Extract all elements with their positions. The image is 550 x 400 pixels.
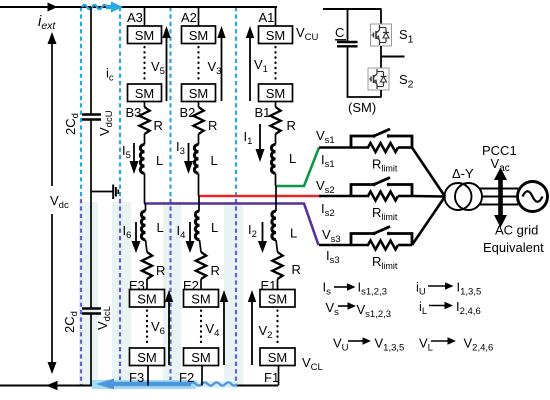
- transformer winding circle 2: [455, 183, 482, 210]
- arm voltage arrow V lower leg 3: [168, 301, 170, 365]
- arm voltage arrow V upper leg 3: [166, 37, 168, 101]
- dashed boundary line 4 upper (cyan): [235, 7, 237, 199]
- wire: bottom DC bus: [0, 385, 278, 387]
- svg-text:Equivalent: Equivalent: [483, 240, 544, 255]
- dotted continuation of lower SM string leg 2: [200, 311, 202, 346]
- arm current arrow I lower leg 2: [189, 222, 191, 242]
- highlight band under dashed line 2 (lower half): [112, 202, 131, 386]
- inductor L upper arm leg 2: [194, 145, 198, 174]
- resistor R_limit s3: [368, 241, 398, 250]
- submodule SM box (bottom) leg 1: [260, 348, 295, 366]
- arm voltage arrow V upper leg 1: [249, 37, 251, 101]
- V_dc arrow upper segment: [51, 42, 53, 186]
- arrowhead i_ext on top bus: [48, 3, 58, 12]
- svg-text:SM: SM: [135, 28, 155, 43]
- AC grid source circle: [518, 182, 548, 212]
- DC-link vertical wire (bottom): [90, 314, 92, 386]
- V_dc measurement arrow (down head): [48, 362, 57, 374]
- submodule SM box (bottom of upper string) leg 2: [182, 84, 216, 102]
- DC-link vertical wire (top): [90, 7, 92, 114]
- transformer winding circle 1: [445, 183, 472, 210]
- wire phase s2 (red): [199, 195, 322, 198]
- resistor R lower arm leg 1: [272, 252, 282, 279]
- dashed boundary line 1 upper (cyan): [80, 7, 82, 199]
- svg-text:SM: SM: [191, 292, 211, 307]
- svg-text:A3: A3: [127, 10, 143, 25]
- cyan circulating-current arrow (bottom, pointing left): light halo: [92, 380, 196, 389]
- highlight band under dashed line 4 (lower half): [224, 202, 243, 386]
- SM detail: wire between S1 and S2: [380, 46, 382, 68]
- wire resistor to SM box lower leg 1: [277, 279, 279, 290]
- resistor R upper arm leg 2: [193, 107, 203, 134]
- ground symbol: [113, 185, 118, 200]
- arrowhead on bottom bus (pointing left): [46, 381, 58, 390]
- wire inductor to AC node leg 3: [144, 174, 146, 204]
- wire phase s3 (purple): [144, 204, 319, 246]
- SM detail: top wire: [323, 8, 382, 10]
- wire: top DC bus: [0, 6, 277, 8]
- wire AC node to lower inductor leg 1: [275, 186, 277, 211]
- ground stub wire: [91, 191, 113, 193]
- highlight band under dashed line 1 (lower half): [79, 202, 243, 386]
- wire SM to resistor leg 1: [275, 102, 277, 108]
- inductor L upper arm leg 3: [140, 145, 144, 174]
- svg-text:SM: SM: [266, 86, 286, 101]
- svg-text:SM: SM: [266, 28, 286, 43]
- SM detail: bottom wire: [347, 96, 382, 98]
- arm current arrow I lower leg 1: [262, 222, 264, 242]
- resistor R_limit s2: [368, 192, 398, 201]
- svg-text:F3: F3: [129, 370, 144, 385]
- svg-text:L: L: [290, 226, 297, 241]
- wire resistor to SM box lower leg 3: [146, 279, 148, 290]
- upper arm leg 2: stub from top bus: [198, 7, 200, 26]
- stub to bottom bus leg 3: [147, 366, 149, 386]
- svg-text:PCC1: PCC1: [482, 143, 517, 158]
- dashed boundary line 3 lower (violet): [169, 199, 171, 385]
- capacitor C plates: [337, 41, 358, 43]
- svg-text:A1: A1: [259, 10, 275, 25]
- arm voltage arrow V lower leg 1: [251, 301, 253, 365]
- dashed boundary line 1 lower (violet): [80, 199, 82, 385]
- svg-text:C: C: [335, 25, 344, 40]
- cyan circulating-current arrow (top, pointing right): [82, 5, 113, 9]
- stub to bottom bus leg 1: [278, 366, 280, 386]
- inductor L lower arm leg 2: [195, 211, 199, 240]
- svg-text:L: L: [211, 220, 218, 235]
- resistor R lower arm leg 2: [196, 252, 206, 279]
- SM detail: left branch wire lower: [347, 47, 349, 98]
- phase s1 wire to transformer: [412, 148, 445, 197]
- svg-text:SM: SM: [137, 292, 157, 307]
- SM detail: right branch wire top: [380, 9, 382, 25]
- svg-text:SM: SM: [189, 86, 209, 101]
- three-phase wires to AC source: [480, 188, 518, 190]
- submodule SM box (top of lower string) leg 1: [260, 290, 295, 308]
- svg-text:F2: F2: [179, 370, 194, 385]
- svg-text:(SM): (SM): [348, 100, 376, 115]
- phase s3 wire to transformer: [412, 197, 445, 246]
- svg-text:R: R: [154, 118, 163, 133]
- submodule SM box (bottom of upper string) leg 3: [128, 84, 162, 102]
- dotted continuation of SM string leg 3: [143, 47, 145, 81]
- SM detail: left branch wire upper: [347, 9, 349, 41]
- bypass breaker switch s2: [351, 185, 374, 197]
- wire AC node to lower inductor leg 3: [145, 204, 147, 212]
- wire resistor to inductor leg 3: [144, 134, 146, 145]
- svg-text:SM: SM: [137, 350, 157, 365]
- resistor R upper arm leg 1: [270, 107, 280, 134]
- submodule SM box (bottom) leg 2: [184, 348, 219, 366]
- cyan circulating-current arrow (bottom, pointing left): [113, 382, 237, 385]
- svg-text:L: L: [156, 153, 163, 168]
- upper arm leg 3: stub from top bus: [144, 7, 146, 26]
- svg-text:B1: B1: [255, 105, 271, 120]
- V_dc arrow lower segment: [51, 214, 53, 364]
- svg-text:SM: SM: [268, 292, 288, 307]
- svg-text:SM: SM: [268, 350, 288, 365]
- resistor R lower arm leg 3: [142, 252, 152, 279]
- dotted continuation of lower SM string leg 1: [276, 311, 278, 346]
- SM detail: midpoint tap wire: [381, 56, 405, 58]
- svg-text:L: L: [157, 220, 164, 235]
- svg-text:L: L: [211, 153, 218, 168]
- wire SM to resistor leg 3: [144, 102, 146, 108]
- dotted continuation of SM string leg 1: [274, 47, 276, 81]
- wire SM to resistor leg 2: [198, 102, 200, 108]
- svg-text:B2: B2: [180, 105, 196, 120]
- svg-text:SM: SM: [135, 86, 155, 101]
- highlight band under dashed line 3 (lower half): [163, 202, 181, 386]
- dashed boundary line 3 upper (cyan): [169, 7, 171, 199]
- wire resistor to SM box lower leg 2: [200, 279, 202, 290]
- dashed boundary line 2 upper (cyan): [119, 7, 121, 199]
- svg-text:R: R: [287, 118, 296, 133]
- submodule SM box (top of lower string) leg 3: [130, 290, 165, 308]
- SM detail: right branch wire bottom: [380, 90, 382, 97]
- IGBT switch S1: [371, 24, 392, 46]
- V_dc measurement arrow (up head): [48, 32, 57, 44]
- phase s1: wire into breaker: [319, 146, 369, 149]
- submodule SM box (bottom) leg 3: [130, 348, 165, 366]
- upper arm leg 1: stub from top bus: [275, 7, 277, 26]
- IGBT switch S2: [368, 68, 389, 90]
- svg-text:R: R: [156, 263, 165, 278]
- svg-text:AC grid: AC grid: [495, 223, 538, 238]
- phase s3: wire into breaker: [319, 244, 369, 247]
- wire inductor to AC node leg 1: [275, 174, 277, 187]
- wire resistor to inductor leg 1: [275, 134, 277, 145]
- wire phase s1 (green): [276, 148, 320, 187]
- dotted continuation of SM string leg 2: [197, 47, 199, 81]
- wire inductor to resistor lower leg 3: [146, 240, 148, 252]
- svg-text:R: R: [208, 118, 217, 133]
- svg-text:R: R: [211, 263, 220, 278]
- svg-text:R: R: [292, 262, 301, 277]
- resistor R_limit s1: [368, 143, 398, 152]
- submodule SM box (top) leg 2: [182, 26, 216, 44]
- submodule SM box (top) leg 3: [128, 26, 162, 44]
- submodule SM box (top) leg 1: [259, 26, 293, 44]
- dashed boundary line 4 lower (violet): [235, 199, 237, 385]
- svg-text:SM: SM: [191, 350, 211, 365]
- inductor L lower arm leg 3: [141, 211, 145, 240]
- wire inductor to resistor lower leg 2: [200, 240, 202, 252]
- V_ac measurement double arrow: [498, 177, 503, 218]
- svg-text:A2: A2: [181, 10, 197, 25]
- dashed boundary line 2 lower (violet): [119, 199, 121, 385]
- capacitor 2Cd lower: plates: [82, 307, 101, 309]
- arm current arrow I upper leg 1: [259, 124, 261, 150]
- wire AC node to lower inductor leg 2: [198, 196, 200, 211]
- arm current arrow I upper leg 3: [133, 143, 135, 162]
- svg-text:L: L: [289, 151, 296, 166]
- submodule SM box (top of lower string) leg 2: [184, 290, 219, 308]
- arm voltage arrow V lower leg 2: [223, 301, 225, 365]
- resistor R upper arm leg 3: [139, 107, 149, 134]
- wire inductor to resistor lower leg 1: [276, 240, 278, 252]
- submodule SM box (bottom of upper string) leg 1: [259, 84, 293, 102]
- wire resistor to inductor leg 2: [198, 134, 200, 145]
- stub to bottom bus leg 2: [201, 366, 203, 386]
- svg-text:F1: F1: [264, 370, 279, 385]
- svg-text:SM: SM: [189, 28, 209, 43]
- bypass breaker switch s1: [351, 136, 374, 148]
- inductor L upper arm leg 1: [271, 145, 275, 174]
- wire inductor to AC node leg 2: [198, 174, 200, 197]
- phase s2: wire into breaker: [319, 195, 369, 198]
- arm current arrow I upper leg 2: [188, 143, 190, 162]
- DC-link vertical wire (middle): [90, 120, 92, 309]
- capacitor 2Cd upper: plates: [82, 113, 101, 115]
- bypass breaker switch s3: [351, 234, 374, 246]
- arm voltage arrow V upper leg 2: [221, 37, 223, 101]
- dotted continuation of lower SM string leg 3: [146, 311, 148, 346]
- arm current arrow I lower leg 3: [135, 222, 137, 242]
- svg-text:Δ-Y: Δ-Y: [452, 166, 474, 181]
- phase s2 wire to transformer: [412, 195, 445, 198]
- svg-text:B3: B3: [126, 105, 142, 120]
- inductor L lower arm leg 1: [272, 211, 276, 240]
